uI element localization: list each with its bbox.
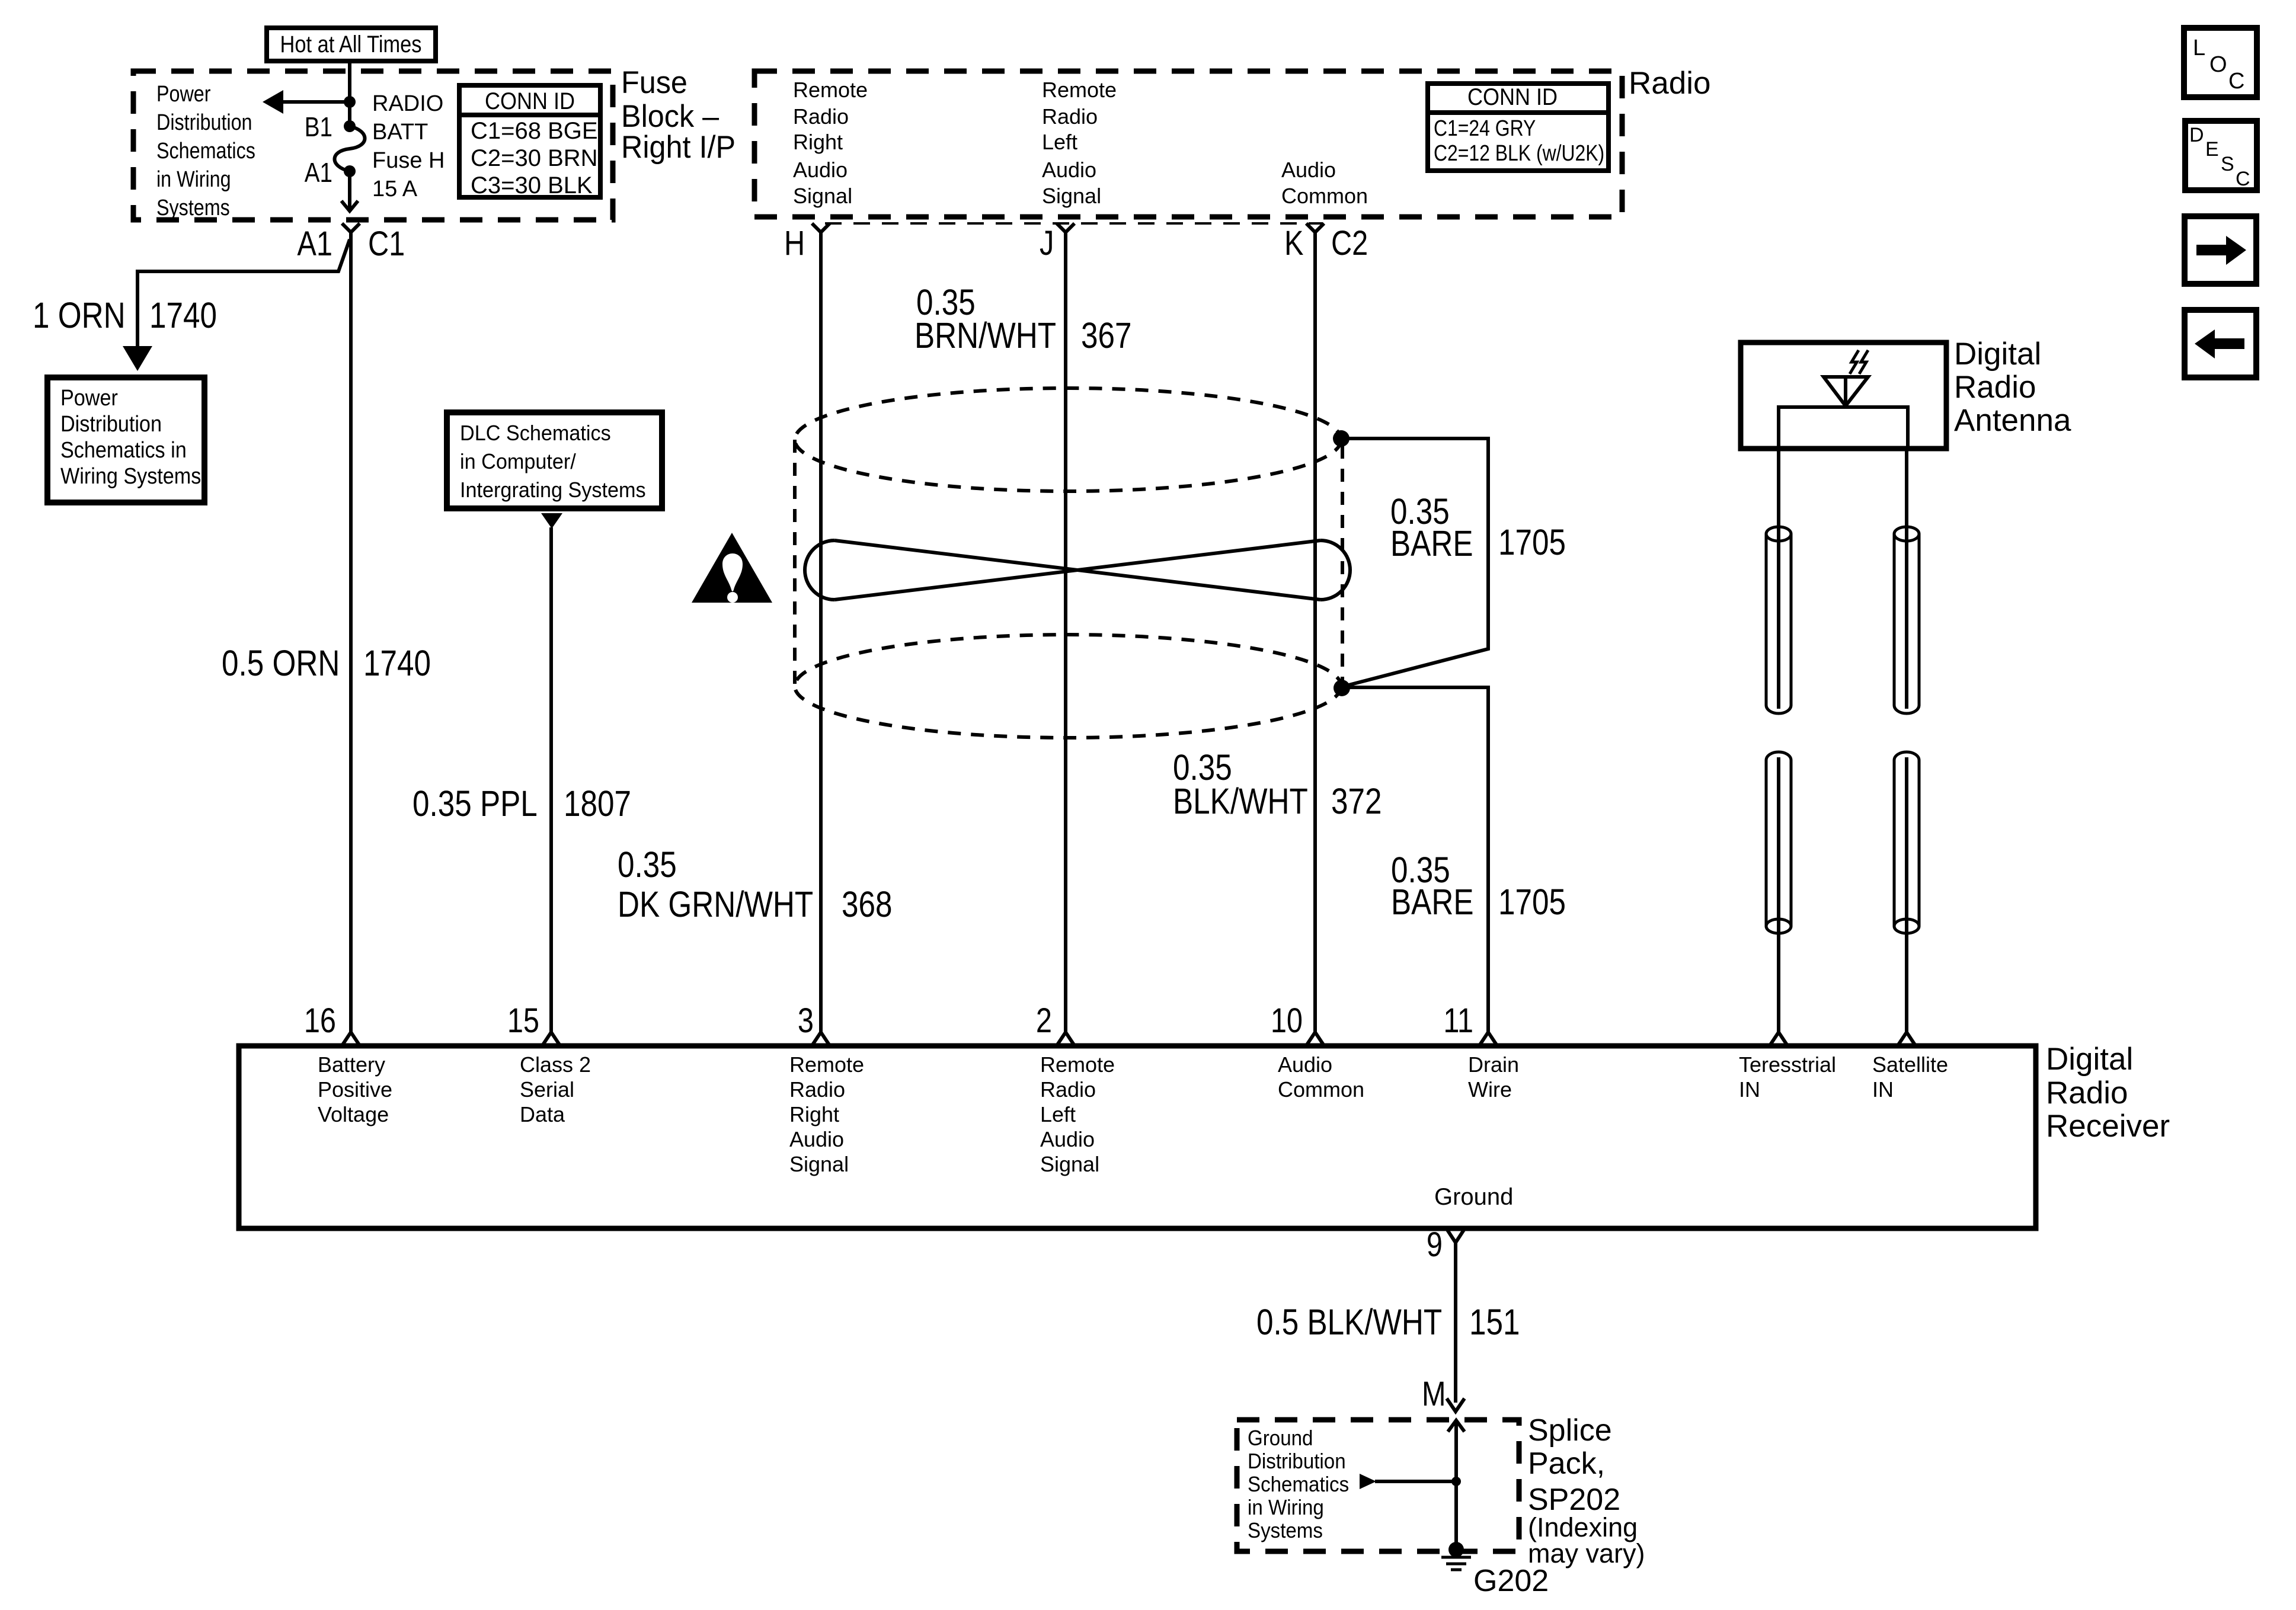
svg-text:Common: Common — [1278, 1077, 1364, 1102]
svg-text:C3=30 BLK: C3=30 BLK — [471, 172, 593, 199]
warning exclamation — [722, 553, 743, 603]
svg-text:Wiring Systems: Wiring Systems — [60, 463, 201, 488]
svg-text:11: 11 — [1443, 1002, 1473, 1040]
fuse block dashed box — [133, 71, 613, 220]
splice up arrow — [1448, 1420, 1464, 1481]
svg-text:G202: G202 — [1473, 1564, 1549, 1598]
svg-text:Antenna: Antenna — [1954, 403, 2071, 438]
svg-text:in Wiring: in Wiring — [156, 167, 231, 192]
svg-text:Data: Data — [520, 1102, 565, 1126]
node B1 dot — [344, 120, 356, 132]
svg-text:Radio: Radio — [1954, 370, 2036, 405]
svg-text:Radio: Radio — [793, 104, 849, 129]
terrestrial IN wire — [1777, 757, 1780, 1032]
svg-text:Audio: Audio — [1278, 1052, 1332, 1077]
antenna funnel symbol — [1824, 377, 1868, 406]
label 0.35 BARE (upper) — [1390, 491, 1473, 564]
svg-text:Audio: Audio — [1042, 158, 1096, 182]
splice pack label — [1528, 1413, 1645, 1569]
svg-text:J: J — [1040, 225, 1054, 263]
digital radio receiver box — [239, 1046, 2036, 1228]
svg-text:BARE: BARE — [1390, 523, 1473, 564]
svg-text:Schematics: Schematics — [1248, 1473, 1349, 1497]
svg-text:Remote: Remote — [1040, 1052, 1115, 1077]
svg-text:O: O — [2209, 52, 2227, 77]
twisted pair left cap — [805, 540, 834, 600]
svg-text:3: 3 — [798, 1002, 814, 1040]
svg-text:Radio: Radio — [1040, 1077, 1096, 1102]
shield top dashed ellipse — [795, 388, 1341, 491]
svg-text:Satellite: Satellite — [1872, 1052, 1948, 1077]
svg-text:Digital: Digital — [2046, 1042, 2133, 1077]
wire below fuse — [348, 171, 351, 210]
splice pack dashed box — [1237, 1420, 1519, 1551]
triangle below DLC box — [541, 513, 562, 529]
svg-text:H: H — [784, 225, 805, 263]
svg-text:Audio: Audio — [1281, 158, 1336, 182]
wire branch to power distribution — [137, 239, 350, 356]
svg-text:Class 2: Class 2 — [520, 1052, 591, 1077]
CONN ID table (radio) — [1428, 84, 1609, 171]
splice branch arrowhead — [1360, 1474, 1376, 1489]
antenna lightning bolts — [1850, 350, 1868, 374]
svg-text:C: C — [2236, 168, 2250, 190]
svg-text:BRN/WHT: BRN/WHT — [914, 315, 1056, 356]
terrestrial coax upper — [1766, 527, 1791, 713]
svg-text:C2=12 BLK (w/U2K): C2=12 BLK (w/U2K) — [1434, 140, 1604, 165]
svg-text:Right: Right — [789, 1102, 839, 1126]
ground symbol — [1441, 1557, 1471, 1570]
svg-text:Signal: Signal — [1040, 1152, 1099, 1176]
drain wire upper segment — [1341, 438, 1488, 686]
wire 15 (class 2 serial data) — [549, 527, 553, 1032]
svg-text:1740: 1740 — [149, 295, 217, 335]
ground wire 9 — [1454, 1243, 1457, 1403]
svg-text:DK GRN/WHT: DK GRN/WHT — [618, 884, 813, 924]
svg-text:C1=24 GRY: C1=24 GRY — [1434, 116, 1536, 140]
terrestrial coax lower — [1766, 752, 1791, 933]
svg-text:0.35 PPL: 0.35 PPL — [412, 783, 538, 824]
drain wire lower segment — [1342, 687, 1488, 1032]
svg-text:C1: C1 — [368, 225, 405, 263]
warning triangle — [692, 533, 772, 603]
svg-text:L: L — [2193, 36, 2205, 60]
left-arrow legend box — [2185, 310, 2256, 377]
svg-text:15: 15 — [507, 1002, 539, 1040]
svg-text:151: 151 — [1469, 1302, 1520, 1342]
label 0.35 BLK/WHT — [1173, 747, 1308, 821]
svg-text:Left: Left — [1040, 1102, 1076, 1126]
ground G202 dot — [1448, 1542, 1464, 1557]
shield drain node top dot — [1333, 430, 1350, 447]
svg-text:Teresstrial: Teresstrial — [1739, 1052, 1836, 1077]
svg-text:0.5 BLK/WHT: 0.5 BLK/WHT — [1256, 1302, 1442, 1342]
svg-text:10: 10 — [1271, 1002, 1303, 1040]
shield drain node bottom dot — [1334, 680, 1350, 696]
shield bottom dashed ellipse — [795, 635, 1341, 738]
splice branch wire — [1375, 1480, 1456, 1483]
node junction dot — [344, 96, 356, 108]
connector J — [1057, 223, 1075, 243]
svg-text:Radio: Radio — [1042, 104, 1098, 129]
svg-text:Power: Power — [156, 82, 211, 107]
wire to power distribution (left arrow) — [279, 100, 350, 104]
fuse H element — [335, 126, 365, 171]
svg-text:Power: Power — [60, 385, 118, 410]
svg-text:9: 9 — [1427, 1226, 1443, 1264]
svg-text:Digital: Digital — [1954, 337, 2041, 372]
receiver pin connectors (chevrons) — [341, 1032, 1916, 1046]
svg-text:Remote: Remote — [789, 1052, 864, 1077]
wire from Hot box to fuse — [348, 61, 351, 126]
svg-text:Receiver: Receiver — [2046, 1109, 2170, 1144]
receiver remote right text — [789, 1052, 864, 1176]
label 0.35 DK GRN/WHT — [618, 844, 813, 924]
CONN ID table (fuse block) — [459, 85, 600, 199]
terrestrial antenna lead — [1777, 449, 1780, 709]
splice junction dot — [1451, 1477, 1461, 1486]
svg-text:E: E — [2205, 138, 2219, 161]
satellite antenna lead — [1905, 449, 1908, 709]
svg-text:Positive: Positive — [318, 1077, 392, 1102]
splice pack ground note — [1248, 1427, 1349, 1543]
svg-text:Voltage: Voltage — [318, 1102, 389, 1126]
svg-text:Right: Right — [793, 130, 843, 154]
svg-text:368: 368 — [842, 884, 892, 924]
svg-text:C: C — [2228, 69, 2244, 94]
Hot at All Times box — [267, 28, 436, 61]
fuse name text — [372, 91, 445, 201]
receiver drain wire text — [1468, 1052, 1519, 1102]
svg-text:0.35: 0.35 — [618, 844, 677, 885]
svg-text:in Computer/: in Computer/ — [460, 450, 576, 473]
wire 10 (audio common, K) — [1313, 232, 1317, 1032]
antenna funnel stem — [1844, 377, 1847, 407]
label 0.35 BARE (lower) — [1391, 850, 1474, 922]
svg-text:Audio: Audio — [789, 1127, 844, 1151]
power distribution note (fuse block) — [156, 82, 255, 220]
svg-text:Wire: Wire — [1468, 1077, 1512, 1102]
svg-text:Hot at All Times: Hot at All Times — [280, 31, 422, 57]
wire 2 (remote radio left audio signal, J) — [1064, 232, 1067, 1032]
svg-text:BATT: BATT — [372, 120, 428, 145]
svg-text:15 A: 15 A — [372, 177, 418, 201]
radio dashed box — [754, 71, 1622, 217]
svg-text:Audio: Audio — [1040, 1127, 1095, 1151]
svg-text:RADIO: RADIO — [372, 91, 443, 116]
svg-text:0.5 ORN: 0.5 ORN — [222, 643, 340, 683]
arrowhead into power dist box — [123, 346, 152, 371]
shield right dashed side — [1341, 446, 1344, 680]
svg-text:C2=30 BRN: C2=30 BRN — [471, 145, 598, 171]
svg-text:B1: B1 — [305, 112, 332, 142]
digital radio receiver label — [2046, 1042, 2170, 1144]
svg-text:CONN ID: CONN ID — [485, 88, 575, 114]
splice wire to ground — [1454, 1481, 1458, 1550]
svg-text:Pack,: Pack, — [1528, 1446, 1605, 1481]
svg-text:367: 367 — [1081, 315, 1131, 356]
svg-text:1705: 1705 — [1498, 522, 1566, 562]
svg-text:Intergrating Systems: Intergrating Systems — [460, 478, 646, 502]
receiver audio common text — [1278, 1052, 1364, 1102]
svg-text:A1: A1 — [297, 225, 332, 263]
svg-text:in Wiring: in Wiring — [1248, 1496, 1324, 1520]
connector H — [812, 223, 830, 243]
svg-text:IN: IN — [1739, 1077, 1760, 1102]
svg-text:Audio: Audio — [793, 158, 848, 182]
svg-text:BLK/WHT: BLK/WHT — [1173, 781, 1308, 821]
svg-text:1705: 1705 — [1498, 882, 1566, 922]
svg-text:Right I/P: Right I/P — [621, 129, 736, 164]
svg-text:Signal: Signal — [789, 1152, 849, 1176]
connector K — [1306, 223, 1324, 243]
svg-text:Distribution: Distribution — [60, 411, 162, 436]
svg-text:Distribution: Distribution — [156, 110, 252, 135]
svg-text:Signal: Signal — [1042, 184, 1101, 208]
svg-text:Ground: Ground — [1248, 1427, 1313, 1451]
svg-text:Splice: Splice — [1528, 1413, 1612, 1448]
svg-text:Radio: Radio — [2046, 1076, 2128, 1110]
shield left dashed side — [793, 440, 797, 686]
svg-text:2: 2 — [1036, 1002, 1052, 1040]
svg-text:CONN ID: CONN ID — [1467, 84, 1558, 110]
digital radio antenna box — [1741, 343, 1946, 449]
svg-text:372: 372 — [1331, 781, 1382, 821]
svg-text:Remote: Remote — [793, 78, 868, 102]
digital radio antenna label — [1954, 337, 2071, 438]
svg-text:D: D — [2189, 124, 2204, 146]
svg-text:Left: Left — [1042, 130, 1077, 154]
label 0.35 BRN/WHT — [914, 282, 1056, 356]
svg-text:Common: Common — [1281, 184, 1368, 208]
receiver terrestrial text — [1739, 1052, 1836, 1102]
svg-text:Radio: Radio — [789, 1077, 845, 1102]
svg-text:Remote: Remote — [1042, 78, 1117, 102]
svg-text:DLC Schematics: DLC Schematics — [460, 421, 611, 445]
svg-text:Systems: Systems — [1248, 1519, 1323, 1543]
DLC schematics box — [447, 412, 662, 508]
DESC legend box — [2185, 121, 2257, 190]
twisted pair cross line 2 — [834, 540, 1320, 600]
satellite coax upper — [1894, 527, 1919, 713]
svg-text:Serial: Serial — [520, 1077, 574, 1102]
receiver class 2 text — [520, 1052, 591, 1126]
satellite coax lower — [1894, 752, 1919, 933]
svg-text:1807: 1807 — [564, 783, 631, 824]
connector A1/C1 — [342, 223, 360, 242]
svg-text:M: M — [1422, 1375, 1446, 1413]
svg-text:Distribution: Distribution — [1248, 1450, 1346, 1474]
pin 9 connector (receiver bottom) — [1447, 1229, 1464, 1243]
connector M — [1447, 1398, 1464, 1411]
open arrowhead down — [341, 201, 358, 211]
svg-text:C1=68 BGE: C1=68 BGE — [471, 118, 598, 144]
svg-text:Radio: Radio — [1629, 66, 1710, 101]
power distribution schematics box — [47, 377, 204, 502]
radio pin J text — [1042, 78, 1117, 208]
svg-text:C2: C2 — [1331, 225, 1368, 263]
svg-text:Signal: Signal — [793, 184, 852, 208]
svg-text:Systems: Systems — [156, 196, 230, 220]
twisted pair cross line 1 — [834, 540, 1320, 600]
wire 3 (remote radio right audio signal, H) — [819, 232, 823, 1032]
LOC legend box — [2184, 28, 2257, 97]
svg-text:may vary): may vary) — [1528, 1538, 1645, 1569]
svg-text:Fuse: Fuse — [621, 65, 687, 100]
radio pin K text — [1281, 158, 1368, 208]
node A1 dot — [344, 165, 356, 177]
svg-text:Block –: Block – — [621, 98, 719, 133]
svg-text:1740: 1740 — [363, 643, 431, 683]
receiver remote left text — [1040, 1052, 1115, 1176]
svg-text:K: K — [1284, 225, 1304, 263]
svg-text:Schematics in: Schematics in — [60, 437, 187, 462]
svg-text:A1: A1 — [305, 158, 332, 188]
right-arrow legend box — [2185, 216, 2256, 284]
svg-text:16: 16 — [304, 1002, 336, 1040]
satellite IN wire — [1905, 757, 1908, 1032]
svg-text:S: S — [2221, 153, 2234, 175]
radio pin H text — [793, 78, 868, 208]
connector dashed link line H-K — [825, 222, 1323, 225]
svg-text:Schematics: Schematics — [156, 139, 255, 164]
svg-text:Ground: Ground — [1434, 1184, 1513, 1210]
receiver battery text — [318, 1052, 392, 1126]
receiver satellite text — [1872, 1052, 1948, 1102]
svg-text:IN: IN — [1872, 1077, 1894, 1102]
svg-text:Battery: Battery — [318, 1052, 385, 1077]
arrowhead left — [263, 90, 283, 114]
svg-text:Fuse H: Fuse H — [372, 148, 445, 173]
svg-text:1 ORN: 1 ORN — [33, 295, 126, 335]
twisted pair right cap — [1320, 540, 1350, 600]
antenna inner module — [1779, 407, 1908, 449]
svg-text:BARE: BARE — [1391, 882, 1474, 922]
fuse block label — [621, 65, 736, 164]
wire 16 (battery feed) — [349, 239, 353, 1032]
svg-text:Drain: Drain — [1468, 1052, 1519, 1077]
